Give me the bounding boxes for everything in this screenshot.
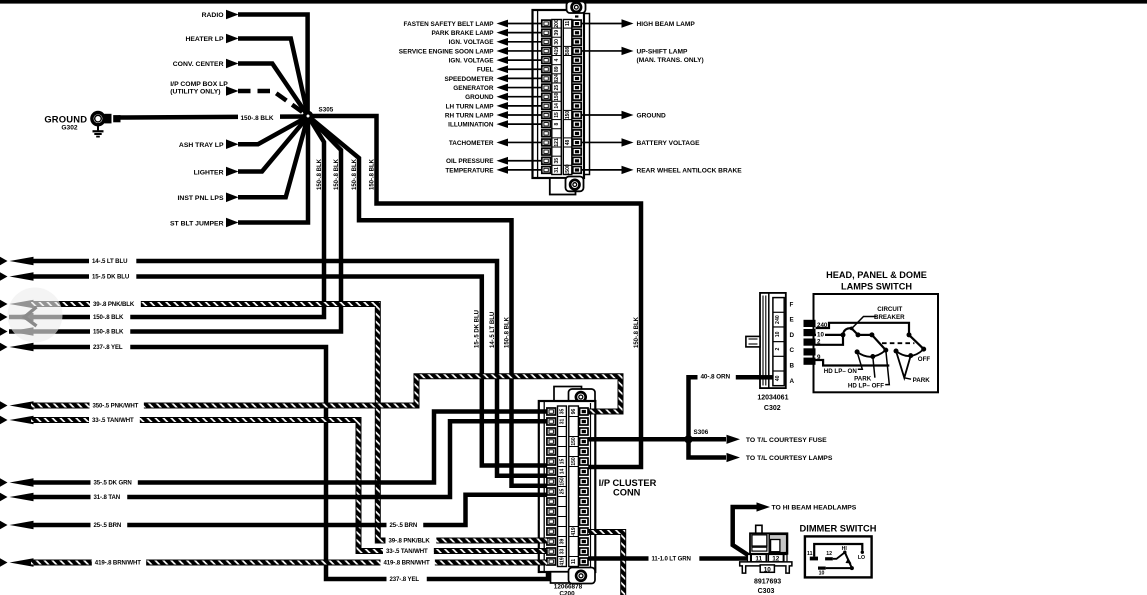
C100 pin lead: UP-SHIFT LAMP bbox=[581, 47, 703, 64]
svg-text:SERVICE ENGINE SOON LAMP: SERVICE ENGINE SOON LAMP bbox=[399, 48, 494, 55]
C100 pin lead: IGN. VOLTAGE bbox=[449, 56, 542, 64]
svg-text:9: 9 bbox=[817, 354, 821, 361]
svg-text:10: 10 bbox=[775, 331, 781, 337]
svg-text:33-.5 TAN/WHT: 33-.5 TAN/WHT bbox=[386, 548, 428, 555]
off-page wire 150-.8 BLK row 2 to S305 branch 2 bbox=[0, 327, 130, 336]
C100 pin lead: TEMPERATURE bbox=[445, 166, 541, 174]
head panel dome lamps switch box bbox=[814, 294, 939, 392]
svg-text:IGN. VOLTAGE: IGN. VOLTAGE bbox=[449, 58, 495, 65]
svg-text:14-.5 LT BLU: 14-.5 LT BLU bbox=[92, 258, 128, 265]
connector C302 part number label bbox=[757, 395, 788, 413]
wire S305 branch 1 (150-.8 BLK) to left connector row bbox=[9, 116, 324, 317]
ground G302 ring terminal bbox=[44, 113, 120, 132]
hatched wire stubs into C200 left pins bbox=[538, 541, 548, 563]
svg-text:150-.8 BLK: 150-.8 BLK bbox=[241, 115, 274, 122]
svg-text:30: 30 bbox=[554, 39, 560, 45]
svg-text:89: 89 bbox=[554, 66, 560, 72]
dimmer switch LO contact bbox=[858, 551, 865, 562]
svg-text:TO HI BEAM HEADLAMPS: TO HI BEAM HEADLAMPS bbox=[772, 505, 857, 512]
svg-text:DIMMER SWITCH: DIMMER SWITCH bbox=[800, 524, 877, 534]
connector C200 circuit number strip (right) bbox=[569, 406, 579, 567]
svg-text:TO T/L COURTESY LAMPS: TO T/L COURTESY LAMPS bbox=[746, 455, 833, 462]
svg-text:419: 419 bbox=[554, 47, 560, 56]
svg-text:ILLUMINATION: ILLUMINATION bbox=[448, 122, 494, 129]
svg-text:ASH TRAY LP: ASH TRAY LP bbox=[179, 142, 224, 149]
wire LIGHTER feed to S305 bbox=[194, 117, 308, 177]
svg-text:BATTERY VOLTAGE: BATTERY VOLTAGE bbox=[637, 140, 701, 147]
svg-text:C303: C303 bbox=[758, 588, 775, 595]
svg-text:150-.8 BLK: 150-.8 BLK bbox=[352, 158, 358, 190]
svg-text:33: 33 bbox=[560, 549, 566, 555]
svg-text:39-.8 PNK/BLK: 39-.8 PNK/BLK bbox=[389, 538, 431, 545]
svg-text:PARK: PARK bbox=[913, 377, 931, 384]
svg-text:GROUND: GROUND bbox=[465, 94, 494, 101]
lamps switch wiper arm right bbox=[909, 335, 926, 352]
svg-text:15: 15 bbox=[554, 112, 560, 118]
svg-text:C200: C200 bbox=[559, 590, 575, 595]
svg-text:GROUND: GROUND bbox=[44, 114, 87, 125]
wire INST PNL LPS feed to S305 bbox=[178, 117, 308, 203]
svg-text:OFF: OFF bbox=[918, 356, 931, 363]
C100 pin lead: IGN. VOLTAGE bbox=[449, 38, 542, 46]
connector C303 body (dimmer switch connector) with pins 11 12 10 bbox=[740, 525, 792, 573]
svg-text:33-.5 TAN/WHT: 33-.5 TAN/WHT bbox=[92, 417, 134, 424]
wire HEATER LP feed to S305 bbox=[185, 34, 308, 116]
circuit breaker label and pointer bbox=[852, 306, 905, 328]
svg-text:150: 150 bbox=[565, 111, 571, 120]
lamps switch left contact arc bbox=[855, 349, 886, 359]
svg-text:1500: 1500 bbox=[565, 164, 571, 175]
wire I/P COMP BOX LP (UTILITY ONLY) dashed feed to S305 bbox=[170, 81, 308, 116]
svg-text:HI: HI bbox=[842, 546, 848, 552]
C100 pin lead: LH TURN LAMP bbox=[446, 102, 542, 110]
svg-text:200: 200 bbox=[554, 19, 560, 28]
svg-text:35: 35 bbox=[560, 409, 566, 415]
wire CONV. CENTER feed to S305 bbox=[173, 59, 308, 116]
dimmer switch wire 10 to pivot bbox=[826, 567, 852, 569]
off-page wire 33-.5 TAN/WHT (hatched) to I/P cluster pin 15 bbox=[0, 415, 548, 555]
connector C303 part number label bbox=[754, 578, 781, 594]
svg-text:ST BLT JUMPER: ST BLT JUMPER bbox=[170, 220, 224, 227]
lamps switch contact rail B-C bbox=[858, 332, 874, 337]
wire 40-.8 ORN stub into C302 pin A bbox=[757, 375, 773, 380]
C100 pin lead: PARK BRAKE LAMP bbox=[431, 29, 541, 37]
C100 pin lead: TACHOMETER bbox=[449, 139, 542, 147]
svg-text:IGN. VOLTAGE: IGN. VOLTAGE bbox=[449, 39, 495, 46]
off-page wire 31-.8 TAN to I/P cluster pin 2 bbox=[0, 421, 548, 502]
wire stubs into C200 left pins bbox=[538, 412, 548, 495]
off-page wire 35-.5 DK GRN to I/P cluster pin 1 bbox=[0, 412, 548, 488]
connector C100 body (instrument cluster harness connector) bbox=[533, 2, 590, 195]
svg-text:TEMPERATURE: TEMPERATURE bbox=[445, 167, 494, 174]
svg-text:14-.5 LT BLU: 14-.5 LT BLU bbox=[490, 312, 496, 348]
svg-text:HEAD, PANEL & DOME: HEAD, PANEL & DOME bbox=[826, 270, 927, 280]
label HD LP-OFF with pointer bbox=[848, 350, 889, 390]
svg-text:150-.8 BLK: 150-.8 BLK bbox=[334, 158, 340, 190]
svg-text:96: 96 bbox=[571, 409, 577, 415]
svg-text:15-.5 DK BLU: 15-.5 DK BLU bbox=[92, 274, 130, 281]
wire G302 to S305 (150-.8 BLK) bbox=[119, 113, 309, 123]
svg-text:REAR WHEEL ANTILOCK BRAKE: REAR WHEEL ANTILOCK BRAKE bbox=[637, 167, 743, 174]
svg-text:I/P CLUSTER: I/P CLUSTER bbox=[599, 478, 657, 488]
svg-text:31-.8 TAN: 31-.8 TAN bbox=[94, 494, 121, 501]
svg-text:C302: C302 bbox=[764, 405, 781, 412]
svg-text:CONV. CENTER: CONV. CENTER bbox=[173, 61, 224, 68]
wire to HI BEAM headlamps from C303 pin 11 bbox=[733, 502, 857, 557]
svg-text:8917693: 8917693 bbox=[754, 578, 781, 585]
off-page wire 237-.8 YEL to I/P cluster bottom bbox=[0, 342, 548, 583]
svg-text:HIGH BEAM LAMP: HIGH BEAM LAMP bbox=[637, 21, 696, 28]
svg-text:OIL PRESSURE: OIL PRESSURE bbox=[446, 158, 494, 165]
svg-text:FUEL: FUEL bbox=[477, 67, 494, 74]
connector C200 body (I/P cluster connector) bbox=[539, 387, 596, 584]
svg-text:25-.5 BRN: 25-.5 BRN bbox=[94, 522, 122, 529]
lamps switch terminal 240 wire and label bbox=[816, 322, 910, 335]
dimmer switch top rail wire bbox=[814, 544, 862, 557]
dimmer switch terminal 12 bbox=[825, 551, 833, 560]
lamps switch supply dot from 240 rail bbox=[907, 332, 912, 337]
viewer navigation overlay (prev button) bbox=[8, 288, 63, 343]
svg-text:40-.8 ORN: 40-.8 ORN bbox=[701, 374, 731, 381]
svg-text:35: 35 bbox=[554, 158, 560, 164]
svg-text:GROUND: GROUND bbox=[637, 112, 667, 119]
dimmer switch HI contact bbox=[842, 546, 848, 554]
dimmer switch wiper arm with arrowhead bbox=[845, 552, 854, 570]
svg-text:RADIO: RADIO bbox=[202, 12, 224, 19]
C100 pin lead: ILLUMINATION bbox=[448, 120, 542, 128]
svg-text:240: 240 bbox=[775, 315, 781, 324]
svg-text:BREAKER: BREAKER bbox=[874, 314, 905, 321]
connector C100 left pin column (17 pins) bbox=[542, 20, 551, 173]
svg-text:12: 12 bbox=[826, 551, 832, 557]
C100 pin lead: OIL PRESSURE bbox=[446, 157, 542, 165]
dimmer switch box bbox=[805, 536, 872, 577]
svg-text:31: 31 bbox=[560, 419, 566, 425]
C100 pin lead: GENERATOR bbox=[453, 84, 542, 92]
label PARK (right) with V pointer bbox=[896, 351, 930, 384]
head panel dome lamps switch title bbox=[826, 270, 927, 292]
svg-text:S306: S306 bbox=[694, 429, 709, 436]
C100 pin lead: SERVICE ENGINE SOON LAMP bbox=[399, 47, 542, 55]
svg-text:350-.5 PNK/WHT: 350-.5 PNK/WHT bbox=[93, 403, 139, 410]
svg-text:25-.5 BRN: 25-.5 BRN bbox=[390, 522, 418, 529]
svg-text:RH TURN LAMP: RH TURN LAMP bbox=[445, 112, 494, 119]
svg-text:10: 10 bbox=[817, 332, 824, 339]
connector C200 part number label bbox=[554, 584, 583, 595]
svg-text:INST PNL LPS: INST PNL LPS bbox=[178, 195, 224, 202]
off-page wire 350-.5 PNK/WHT (hatched) loop to I/P cluster right pin 1 bbox=[0, 376, 621, 411]
wire S306 to T/L courtesy lamps bbox=[689, 439, 833, 462]
svg-text:TO T/L COURTESY FUSE: TO T/L COURTESY FUSE bbox=[746, 437, 827, 444]
C100 pin lead: FUEL bbox=[477, 65, 542, 73]
svg-text:2: 2 bbox=[775, 347, 781, 350]
svg-text:12034061: 12034061 bbox=[757, 395, 788, 402]
wire S305 branch 2 (150-.8 BLK) to left connector row bbox=[9, 116, 341, 332]
svg-text:(UTILITY ONLY): (UTILITY ONLY) bbox=[170, 89, 220, 96]
wire 40-.8 ORN from C302 pin A to S306 bbox=[689, 372, 773, 439]
dimmer switch wire 12 to HI bbox=[833, 552, 845, 558]
svg-text:40: 40 bbox=[775, 375, 781, 381]
svg-text:8: 8 bbox=[554, 123, 560, 126]
svg-text:S305: S305 bbox=[319, 107, 334, 114]
svg-text:2: 2 bbox=[817, 339, 821, 346]
C100 pin lead: GROUND bbox=[581, 111, 666, 120]
svg-text:A: A bbox=[790, 378, 795, 385]
splice S305 bbox=[303, 107, 334, 122]
connector C200 circuit number strip (left) bbox=[558, 406, 567, 567]
svg-text:31: 31 bbox=[554, 167, 560, 173]
svg-text:39: 39 bbox=[560, 539, 566, 545]
C100 pin lead: GROUND bbox=[465, 93, 542, 101]
wire ST BLT JUMPER feed to S305 bbox=[170, 117, 308, 228]
svg-text:419-.8 BRN/WHT: 419-.8 BRN/WHT bbox=[95, 560, 141, 567]
svg-text:10: 10 bbox=[819, 570, 825, 576]
wire ASH TRAY LP feed to S305 bbox=[179, 117, 308, 150]
wire RADIO feed to S305 (150-.8 BLK) bbox=[202, 10, 308, 116]
wire S305 branch 3 (150-.8 BLK) to I/P cluster pin 8 bbox=[308, 116, 548, 486]
label HD LP-ON with pointer bbox=[824, 352, 863, 375]
svg-text:150-.8 BLK: 150-.8 BLK bbox=[93, 329, 124, 336]
svg-text:HEATER LP: HEATER LP bbox=[185, 36, 223, 43]
svg-text:150: 150 bbox=[571, 437, 577, 446]
connector C302 pin letters F-A bbox=[790, 301, 795, 385]
svg-text:TACHOMETER: TACHOMETER bbox=[449, 140, 494, 147]
svg-text:PARK BRAKE LAMP: PARK BRAKE LAMP bbox=[431, 30, 494, 37]
svg-text:LAMPS SWITCH: LAMPS SWITCH bbox=[841, 281, 912, 291]
label OFF bbox=[918, 356, 931, 363]
svg-text:150: 150 bbox=[560, 477, 566, 486]
svg-text:14: 14 bbox=[560, 469, 566, 475]
C100 pin lead: BATTERY VOLTAGE bbox=[581, 138, 700, 147]
circuit breaker symbol bbox=[841, 327, 861, 338]
svg-text:15-.5 DK BLU: 15-.5 DK BLU bbox=[475, 310, 481, 348]
wire S305 branch 4 (150-.8 BLK) to I/P cluster right pin bbox=[308, 116, 641, 467]
wire S306 to T/L courtesy fuse bbox=[691, 435, 827, 444]
lamps switch wiper arm left bbox=[872, 335, 888, 353]
svg-text:48: 48 bbox=[565, 139, 571, 145]
svg-text:E: E bbox=[790, 317, 794, 324]
connector C302 cell circuit numbers bbox=[775, 315, 781, 381]
lamps switch terminal 2 wire and label bbox=[816, 335, 844, 346]
svg-text:G302: G302 bbox=[61, 124, 77, 131]
page top border bar bbox=[0, 0, 1147, 4]
wire C200 right pin 4 to splice S306 bbox=[595, 437, 689, 442]
svg-text:237-.8 YEL: 237-.8 YEL bbox=[390, 576, 420, 583]
svg-text:F: F bbox=[790, 301, 794, 308]
svg-text:150-.8 BLK: 150-.8 BLK bbox=[317, 158, 323, 190]
lamps switch terminal 10 wire and label bbox=[816, 331, 844, 338]
lamps switch right contact arc bbox=[894, 349, 924, 359]
svg-text:11: 11 bbox=[571, 559, 577, 565]
label PARK (left) with pointer bbox=[854, 357, 875, 383]
svg-text:39: 39 bbox=[554, 30, 560, 36]
off-page wire 15-.5 DK BLU to I/P cluster pin 6 bbox=[0, 272, 548, 466]
svg-text:419: 419 bbox=[560, 557, 566, 566]
svg-text:UP-SHIFT LAMP: UP-SHIFT LAMP bbox=[637, 48, 689, 55]
lamps switch mechanical link (dashed) bbox=[882, 342, 914, 344]
svg-text:39-.8 PNK/BLK: 39-.8 PNK/BLK bbox=[93, 301, 135, 308]
svg-text:240: 240 bbox=[817, 322, 828, 329]
C100 pin lead: HIGH BEAM LAMP bbox=[581, 19, 695, 28]
I/P cluster conn name label bbox=[599, 478, 657, 498]
svg-text:FASTEN SAFETY BELT LAMP: FASTEN SAFETY BELT LAMP bbox=[404, 21, 495, 28]
connector C302 body (head/panel/dome lamps switch connector) bbox=[746, 293, 786, 388]
svg-text:C: C bbox=[790, 347, 795, 354]
svg-text:PARK: PARK bbox=[854, 376, 872, 383]
svg-text:35-.5 DK GRN: 35-.5 DK GRN bbox=[94, 480, 132, 487]
svg-text:11: 11 bbox=[807, 551, 813, 557]
splice S306 bbox=[684, 429, 708, 444]
svg-text:15: 15 bbox=[560, 459, 566, 465]
wire stubs from C200 right pins bbox=[588, 439, 596, 467]
svg-text:508: 508 bbox=[565, 47, 571, 56]
svg-text:LO: LO bbox=[858, 555, 865, 561]
svg-text:824: 824 bbox=[554, 74, 560, 83]
svg-text:150-.8 BLK: 150-.8 BLK bbox=[93, 314, 124, 321]
svg-text:150: 150 bbox=[554, 92, 560, 101]
connector C200 left pin column (16 pins) bbox=[547, 408, 556, 565]
ground symbol G302 bbox=[93, 125, 104, 137]
svg-text:14: 14 bbox=[554, 103, 560, 109]
C100 pin lead: FASTEN SAFETY BELT LAMP bbox=[404, 20, 542, 28]
svg-text:LIGHTER: LIGHTER bbox=[194, 169, 224, 176]
C100 pin lead: RH TURN LAMP bbox=[445, 111, 542, 119]
wire 11-1.0 LT GRN from C200 to dimmer connector C303 pin 11 bbox=[588, 554, 752, 563]
svg-text:I/P COMP BOX LP: I/P COMP BOX LP bbox=[170, 81, 228, 88]
svg-text:419-.8 BRN/WHT: 419-.8 BRN/WHT bbox=[384, 560, 430, 567]
lamps switch terminal 9 wire and label bbox=[816, 354, 890, 365]
svg-text:25: 25 bbox=[554, 85, 560, 91]
svg-text:237-.8 YEL: 237-.8 YEL bbox=[93, 344, 123, 351]
svg-text:4: 4 bbox=[554, 58, 560, 61]
svg-text:HD LP– ON: HD LP– ON bbox=[824, 368, 858, 375]
off-page wire 25-.5 BRN to I/P cluster pin 9 bbox=[0, 495, 548, 530]
C100 pin lead: SPEEDOMETER bbox=[444, 75, 541, 83]
svg-text:CIRCUIT: CIRCUIT bbox=[877, 306, 902, 313]
off-page wire 14-.5 LT BLU to I/P cluster pin 7 bbox=[0, 256, 548, 475]
off-page wire 419-.8 BRN/WHT (hatched) to I/P cluster pin 16 bbox=[0, 558, 548, 567]
svg-text:150-.8 BLK: 150-.8 BLK bbox=[504, 316, 510, 348]
svg-text:HD LP– OFF: HD LP– OFF bbox=[848, 383, 884, 390]
svg-text:10: 10 bbox=[764, 566, 772, 573]
svg-text:11-1.0 LT GRN: 11-1.0 LT GRN bbox=[652, 556, 691, 563]
svg-text:25: 25 bbox=[560, 489, 566, 495]
svg-text:150: 150 bbox=[571, 457, 577, 466]
svg-text:419: 419 bbox=[571, 527, 577, 536]
connector C100 circuit number strip (right) bbox=[563, 20, 572, 176]
svg-text:GENERATOR: GENERATOR bbox=[453, 85, 494, 92]
connector C200 right pin column (16 pins) bbox=[580, 408, 588, 565]
connector C100 right pin column (17 pins) bbox=[573, 15, 581, 173]
svg-text:150-.8 BLK: 150-.8 BLK bbox=[369, 158, 375, 190]
svg-text:D: D bbox=[790, 332, 795, 339]
off-page wire 39-.8 PNK/BLK (hatched) to I/P cluster pin 14 bbox=[0, 299, 548, 545]
svg-text:150-.8 BLK: 150-.8 BLK bbox=[634, 316, 640, 348]
hatched wire C200 right pin 13 exiting page bottom bbox=[595, 532, 624, 595]
svg-text:(MAN. TRANS. ONLY): (MAN. TRANS. ONLY) bbox=[637, 57, 704, 64]
svg-text:121: 121 bbox=[554, 138, 560, 147]
off-page wire 150-.8 BLK row 1 to S305 branch 1 bbox=[0, 312, 130, 321]
svg-text:11: 11 bbox=[565, 21, 571, 27]
dimmer switch title bbox=[800, 524, 877, 534]
svg-text:CONN: CONN bbox=[613, 488, 641, 498]
svg-text:SPEEDOMETER: SPEEDOMETER bbox=[444, 76, 493, 83]
hatched wire stubs from C200 right pins bbox=[588, 412, 596, 533]
connector C100 circuit number strip (left) bbox=[552, 19, 562, 174]
svg-text:LH TURN LAMP: LH TURN LAMP bbox=[446, 103, 495, 110]
lamps switch terminal tabs bbox=[804, 320, 816, 365]
dimmer switch terminal 11 bbox=[807, 551, 818, 560]
C100 pin lead: REAR WHEEL ANTILOCK BRAKE bbox=[581, 166, 742, 175]
dimmer switch terminal 10 bbox=[818, 567, 826, 577]
svg-text:B: B bbox=[790, 363, 795, 370]
